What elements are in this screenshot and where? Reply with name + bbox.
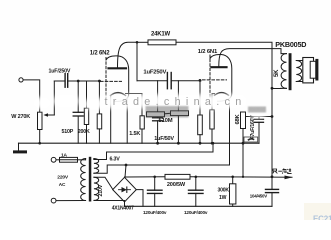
svg-text:W 270K: W 270K	[11, 114, 30, 120]
tube V2 plate	[212, 66, 227, 68]
wire bridge right corner down	[136, 190, 143, 207]
svg-text:1uF250V: 1uF250V	[143, 69, 166, 75]
wire 24K1W to B+ riser	[176, 42, 272, 88]
resistor 68K	[246, 116, 273, 118]
svg-text:120uF/400v: 120uF/400v	[143, 210, 167, 215]
drop wire x178.4	[177, 81, 179, 144]
svg-text:4X1N4007: 4X1N4007	[112, 205, 134, 211]
capacitor C1 1uF/250V	[64, 74, 66, 88]
wire cap to grid of V2	[172, 80, 201, 82]
bottom right watermark	[304, 203, 331, 220]
capacitor 510P	[77, 81, 79, 112]
svg-text:PKB005D: PKB005D	[275, 40, 306, 49]
tube V1 1/2 6N2 envelope dashed	[105, 58, 107, 100]
svg-text:5K: 5K	[274, 69, 280, 77]
svg-text:210V: 210V	[98, 184, 104, 196]
filter cap 120uF/400v no2	[195, 176, 198, 179]
B+ rail	[125, 176, 166, 178]
filter cap 120uF/400v no1	[153, 176, 156, 179]
svg-text:104/450V: 104/450V	[250, 193, 267, 198]
wire bridge bottom corner down	[124, 202, 126, 206]
T1 6.3V winding	[94, 159, 99, 174]
tube V2 cathode arc	[215, 93, 229, 96]
output transformer primary 5K	[281, 54, 286, 89]
svg-text:1uF/50V: 1uF/50V	[154, 136, 174, 142]
heater line B	[94, 101, 230, 174]
B+ riser to OPT	[271, 175, 274, 178]
resistor 510M a	[147, 112, 165, 117]
wire secondary to speaker top	[296, 60, 303, 62]
tube V2 1/2 6N1 envelope dashed	[209, 55, 211, 99]
wire C1 to grid of V1	[68, 80, 100, 82]
tube V2 plate lead	[219, 49, 281, 66]
tube V1 plate lead	[118, 42, 138, 67]
wire cathode to R 1.5K	[126, 94, 143, 116]
power transformer T1 primary	[81, 159, 86, 201]
drop wire x157.6	[157, 81, 159, 118]
tube V1 cathode arc	[111, 93, 126, 96]
wire jack to pot top	[23, 80, 40, 112]
tube V1 cathode lead right	[126, 98, 128, 143]
svg-text:1/2 6N2: 1/2 6N2	[90, 51, 110, 57]
resistor R3	[98, 81, 100, 114]
input jack J1	[19, 78, 23, 82]
resistor 300K 1W	[231, 176, 234, 179]
node B+ tap	[271, 115, 274, 118]
resistor 1.5K	[140, 116, 144, 129]
T1 core	[89, 157, 92, 202]
tube V2 grid dashed	[203, 79, 227, 81]
tube V1 cathode lead left	[110, 96, 112, 144]
tube V2 cathode lead	[212, 94, 215, 110]
svg-text:6.3V: 6.3V	[110, 157, 121, 163]
capacitor 47uF/160V	[258, 117, 260, 120]
svg-text:AC: AC	[59, 182, 66, 187]
resistor 510M b	[171, 111, 189, 116]
wire to 24K1W	[137, 41, 148, 43]
wire bridge top to line B	[125, 165, 126, 177]
svg-text:68K: 68K	[235, 113, 241, 124]
svg-text:24K1W: 24K1W	[151, 32, 171, 38]
svg-text:200/5W: 200/5W	[167, 182, 186, 188]
wire 510M link	[165, 112, 171, 115]
svg-text:1A: 1A	[61, 153, 68, 159]
watermark white blobs	[33, 94, 267, 118]
tube V1 grid dashed	[101, 80, 122, 82]
bridge diode mark	[122, 187, 127, 192]
svg-text:300K: 300K	[218, 188, 230, 194]
wire secondary to speaker bottom	[296, 81, 303, 83]
OPT secondary	[296, 61, 301, 82]
ground symbol	[18, 143, 20, 151]
svg-text:1/2 6N1: 1/2 6N1	[198, 49, 218, 55]
watermark dark patches	[146, 106, 267, 118]
svg-text:1uF/250V: 1uF/250V	[49, 69, 71, 75]
bottom rail	[125, 205, 273, 207]
node dot R3	[98, 80, 101, 83]
svg-text:510P: 510P	[62, 129, 74, 135]
tube V2 envelope arc	[210, 54, 232, 101]
fuse 1A	[60, 157, 78, 162]
heater line A	[94, 143, 213, 159]
wire coupling riser	[136, 42, 138, 80]
svg-text:1.5K: 1.5K	[129, 131, 140, 137]
resistor grid leak V2	[199, 79, 202, 82]
wire wiper to cap C1	[54, 80, 64, 82]
bridge rectifier 4X1N4007	[113, 177, 137, 202]
wire pot bottom to ground rail	[39, 130, 41, 144]
resistor cathode V2	[210, 110, 214, 129]
svg-text:510M: 510M	[159, 118, 173, 124]
OPT core	[289, 53, 292, 90]
OPT primary wire from B+	[272, 87, 281, 89]
arrow to other channel	[285, 176, 293, 180]
tube V1 plate	[109, 67, 127, 69]
node dot bridge feed	[125, 164, 128, 167]
ground rail	[19, 142, 260, 144]
potentiometer W 270K	[38, 112, 43, 129]
speaker coil box	[310, 61, 316, 78]
svg-text:47uF/160V: 47uF/160V	[250, 115, 256, 140]
svg-text:1W: 1W	[219, 195, 227, 201]
capacitor 104/450V	[271, 177, 273, 190]
mains jack top	[51, 157, 56, 162]
capacitor C2 1uF250V	[166, 73, 168, 89]
label another channel CJK strokes	[273, 168, 292, 173]
speaker body	[303, 58, 314, 83]
watermark remnant box	[244, 137, 258, 142]
svg-text:120uF/400v: 120uF/400v	[184, 210, 208, 215]
pot wiper arrow	[45, 114, 54, 116]
resistor 24K1W	[148, 40, 176, 45]
wire 210V bottom to bridge	[94, 200, 125, 202]
svg-text:200K: 200K	[78, 129, 90, 135]
wire plate node dot	[136, 41, 139, 44]
resistor 200/5W	[165, 174, 190, 179]
wire wiper riser	[53, 81, 55, 115]
speaker magnet bar	[315, 59, 318, 81]
wire to coupling cap	[137, 80, 167, 82]
T1 210V winding	[94, 177, 99, 200]
wire 210V top to bridge	[94, 177, 113, 189]
resistor 200K	[86, 81, 88, 108]
svg-text:220V: 220V	[57, 175, 69, 181]
tube V1 envelope arc	[106, 56, 129, 102]
svg-text:trade.china.cn: trade.china.cn	[105, 96, 247, 108]
capacitor 1uF/50V	[153, 117, 163, 119]
svg-text:EC21: EC21	[313, 215, 331, 221]
mains jack bottom	[51, 198, 56, 203]
node dot 510P	[77, 80, 80, 83]
